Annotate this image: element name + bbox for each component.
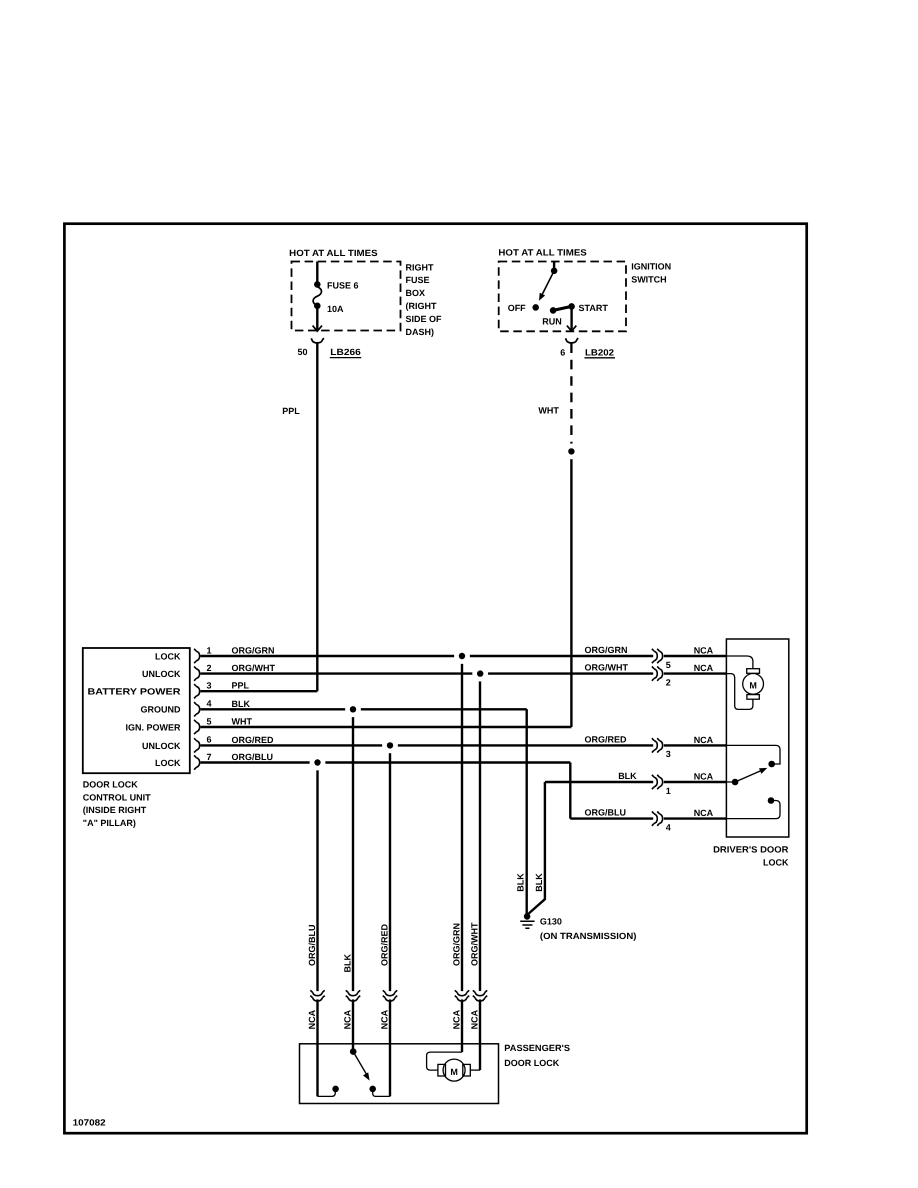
svg-text:ORG/BLU: ORG/BLU [585, 808, 627, 818]
svg-text:ORG/GRN: ORG/GRN [451, 923, 461, 966]
svg-text:LB266: LB266 [330, 347, 361, 357]
svg-text:5: 5 [666, 660, 671, 670]
svg-text:BLK: BLK [618, 771, 637, 781]
svg-text:FUSE 6: FUSE 6 [327, 280, 359, 290]
svg-text:DRIVER'S DOOR: DRIVER'S DOOR [713, 845, 789, 855]
svg-text:NCA: NCA [379, 1009, 389, 1029]
svg-text:3: 3 [666, 749, 671, 759]
svg-text:FUSE: FUSE [406, 275, 430, 285]
svg-text:ORG/WHT: ORG/WHT [232, 663, 276, 673]
svg-text:6: 6 [207, 735, 212, 745]
svg-text:BLK: BLK [534, 873, 544, 892]
svg-text:DOOR LOCK: DOOR LOCK [83, 780, 138, 790]
svg-text:WHT: WHT [232, 717, 253, 727]
svg-text:IGN. POWER: IGN. POWER [125, 722, 181, 732]
svg-text:RIGHT: RIGHT [406, 262, 435, 272]
svg-text:10A: 10A [327, 304, 344, 314]
svg-text:2: 2 [207, 663, 212, 673]
svg-text:1: 1 [207, 645, 212, 655]
svg-text:G130: G130 [540, 916, 562, 926]
svg-text:ORG/WHT: ORG/WHT [585, 663, 629, 673]
svg-text:ORG/RED: ORG/RED [585, 734, 628, 744]
svg-text:3: 3 [207, 681, 212, 691]
svg-text:HOT AT ALL TIMES: HOT AT ALL TIMES [289, 248, 377, 258]
svg-text:PPL: PPL [232, 681, 250, 691]
svg-text:BLK: BLK [516, 873, 526, 892]
svg-text:2: 2 [666, 677, 671, 687]
svg-text:OFF: OFF [508, 303, 526, 313]
svg-text:ORG/RED: ORG/RED [232, 735, 275, 745]
svg-text:7: 7 [207, 752, 212, 762]
svg-text:GROUND: GROUND [141, 705, 181, 715]
svg-text:ORG/GRN: ORG/GRN [585, 645, 628, 655]
svg-text:SWITCH: SWITCH [631, 275, 667, 285]
svg-text:BATTERY POWER: BATTERY POWER [88, 687, 182, 697]
svg-text:NCA: NCA [694, 735, 714, 745]
svg-text:SIDE OF: SIDE OF [406, 314, 443, 324]
svg-text:NCA: NCA [342, 1009, 352, 1029]
svg-text:M: M [749, 681, 757, 691]
svg-text:(RIGHT: (RIGHT [406, 301, 437, 311]
svg-text:ORG/WHT: ORG/WHT [469, 922, 479, 966]
svg-text:BLK: BLK [232, 699, 251, 709]
svg-text:UNLOCK: UNLOCK [142, 669, 181, 679]
svg-text:6: 6 [560, 347, 565, 357]
svg-text:ORG/RED: ORG/RED [379, 923, 389, 966]
svg-text:LB202: LB202 [585, 347, 614, 357]
svg-text:LOCK: LOCK [155, 651, 181, 661]
svg-text:(INSIDE RIGHT: (INSIDE RIGHT [83, 805, 147, 815]
svg-text:NCA: NCA [451, 1009, 461, 1029]
svg-text:ORG/BLU: ORG/BLU [307, 925, 317, 967]
svg-text:UNLOCK: UNLOCK [142, 741, 181, 751]
svg-text:DASH): DASH) [406, 327, 435, 337]
svg-text:HOT AT ALL TIMES: HOT AT ALL TIMES [498, 247, 586, 257]
svg-text:M: M [450, 1067, 458, 1077]
svg-text:BOX: BOX [406, 288, 426, 298]
svg-text:PPL: PPL [282, 406, 300, 416]
svg-text:(ON TRANSMISSION): (ON TRANSMISSION) [540, 931, 637, 941]
svg-text:4: 4 [207, 699, 212, 709]
svg-text:1: 1 [666, 786, 671, 796]
svg-text:50: 50 [297, 347, 307, 357]
svg-text:NCA: NCA [694, 771, 714, 781]
svg-text:NCA: NCA [694, 808, 714, 818]
svg-text:107082: 107082 [73, 1118, 106, 1128]
svg-text:IGNITION: IGNITION [631, 262, 671, 272]
svg-text:5: 5 [207, 716, 212, 726]
svg-text:4: 4 [666, 822, 671, 832]
svg-text:BLK: BLK [342, 954, 352, 973]
svg-text:ORG/BLU: ORG/BLU [232, 752, 274, 762]
svg-text:CONTROL UNIT: CONTROL UNIT [83, 792, 151, 802]
svg-text:NCA: NCA [469, 1009, 479, 1029]
svg-text:PASSENGER'S: PASSENGER'S [504, 1043, 570, 1053]
svg-text:NCA: NCA [307, 1009, 317, 1029]
svg-text:LOCK: LOCK [155, 758, 181, 768]
svg-text:RUN: RUN [542, 316, 562, 326]
svg-text:ORG/GRN: ORG/GRN [232, 646, 275, 656]
svg-text:WHT: WHT [538, 405, 559, 415]
svg-text:NCA: NCA [694, 663, 714, 673]
svg-text:START: START [579, 303, 609, 313]
svg-text:DOOR LOCK: DOOR LOCK [504, 1058, 559, 1068]
svg-text:NCA: NCA [694, 645, 714, 655]
svg-text:LOCK: LOCK [763, 858, 789, 868]
svg-text:"A" PILLAR): "A" PILLAR) [83, 818, 136, 828]
